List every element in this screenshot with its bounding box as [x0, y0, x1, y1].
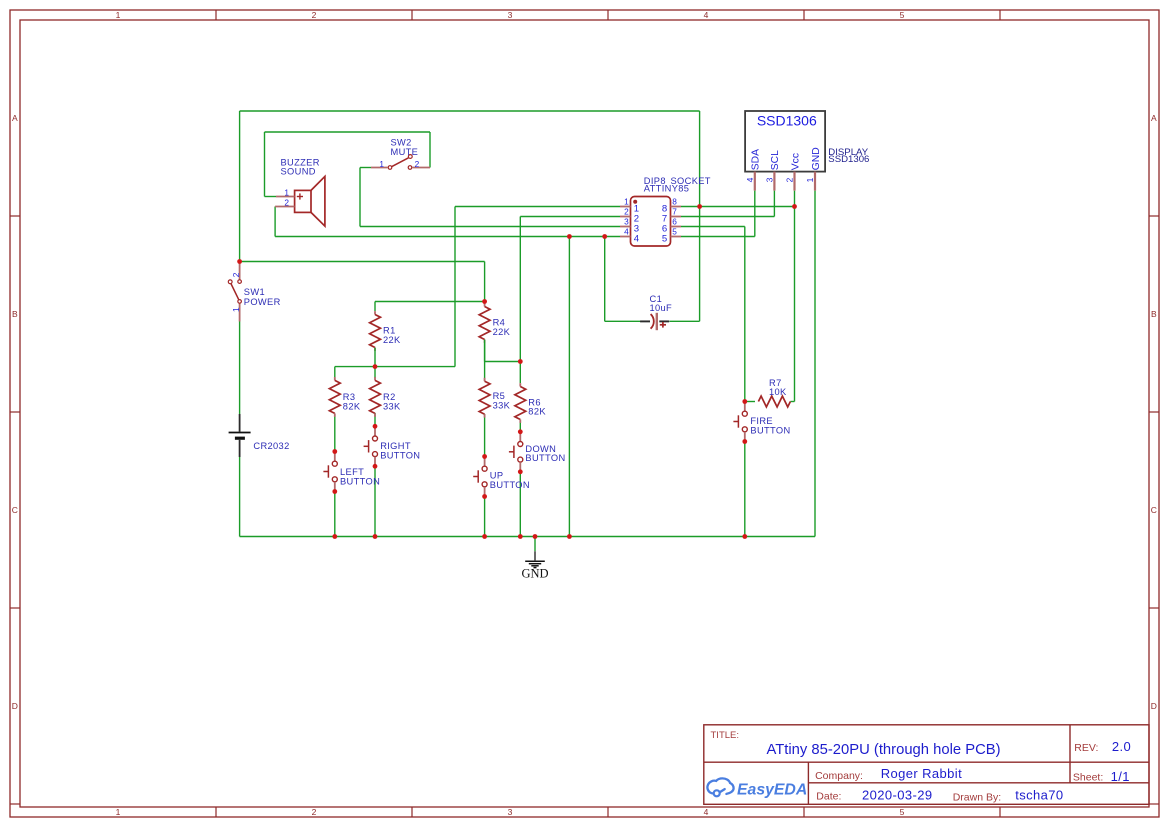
svg-text:B: B [12, 309, 18, 319]
fire button body [744, 402, 746, 412]
junction R1-R2-R3 node [373, 364, 378, 369]
svg-text:3: 3 [508, 10, 513, 20]
R1 zigzag [374, 311, 376, 314]
svg-text:SSD1306: SSD1306 [828, 154, 869, 165]
svg-text:6: 6 [672, 217, 677, 227]
junction display Vcc [792, 204, 797, 209]
wire: buzzer pin2 down to GND row [274, 207, 276, 237]
svg-text:Roger Rabbit: Roger Rabbit [881, 766, 962, 781]
wire: R2 bottom to RIGHT button [374, 413, 376, 426]
svg-text:2: 2 [312, 10, 317, 20]
left button body [334, 452, 336, 462]
wire: DIP pin8 wire to display Vcc [681, 206, 795, 208]
down button body [519, 432, 521, 442]
svg-text:BUTTON: BUTTON [525, 453, 565, 463]
junction rail GND [533, 534, 538, 539]
svg-text:4: 4 [624, 227, 629, 237]
svg-text:2: 2 [415, 159, 420, 169]
svg-text:EasyEDA: EasyEDA [737, 781, 807, 798]
svg-text:10K: 10K [769, 387, 787, 397]
svg-text:3: 3 [508, 807, 513, 817]
R2 zigzag [374, 377, 376, 380]
svg-text:5: 5 [900, 10, 905, 20]
wire: RIGHT button to rail [374, 466, 376, 536]
junction R4 top node [482, 299, 487, 304]
svg-text:2.0: 2.0 [1112, 739, 1131, 754]
R3 zigzag [334, 377, 336, 380]
DIP8 pin 2 [620, 216, 631, 218]
svg-text:1: 1 [284, 187, 289, 197]
svg-text:tscha70: tscha70 [1015, 787, 1063, 802]
svg-text:3: 3 [765, 177, 775, 182]
svg-text:4: 4 [634, 234, 640, 245]
SSD1306 pin 4 SDA [754, 172, 756, 191]
right button body [374, 426, 376, 436]
wire: LEFT button to rail [334, 491, 336, 536]
svg-text:1: 1 [116, 10, 121, 20]
wire: R3 bottom to LEFT button [334, 414, 336, 452]
svg-text:1: 1 [624, 197, 629, 207]
svg-text:SDA: SDA [751, 149, 762, 170]
wire: DIP pin4 (GND) wire from buzzer [275, 236, 620, 238]
svg-text:TITLE:: TITLE: [711, 730, 740, 741]
wire: UP button to rail [484, 495, 486, 536]
wire: SW2 pin1 down to pin3 row [360, 167, 371, 169]
junction rail FIRE [742, 534, 747, 539]
svg-text:SW1: SW1 [244, 287, 265, 297]
svg-text:REV:: REV: [1074, 742, 1098, 754]
wire: left vertical x=240 to SW1 [239, 111, 241, 262]
svg-text:Company:: Company: [815, 770, 863, 782]
wire: DIP pin1 wire [455, 206, 620, 208]
EasyEDA logo [707, 778, 733, 794]
svg-text:2: 2 [284, 198, 289, 208]
junction GND wire left [567, 234, 572, 239]
svg-text:SCL: SCL [770, 150, 781, 170]
wire: battery column [239, 322, 241, 415]
buzzer BUZZER SOUND [295, 190, 311, 212]
junction rail DOWN [518, 534, 523, 539]
svg-text:D: D [1151, 701, 1157, 711]
svg-text:D: D [12, 701, 18, 711]
svg-text:BUTTON: BUTTON [340, 477, 380, 487]
junction SW1/Vcc node [237, 259, 242, 264]
wire: display GND vertical to bottom rail [814, 191, 816, 537]
junction GND wire C1 [602, 234, 607, 239]
up button body [484, 457, 486, 467]
battery CR2032 [239, 414, 241, 432]
wire: R6 bottom to DOWN button [519, 420, 521, 432]
junction rail LEFT [332, 534, 337, 539]
wire: DIP pin2 wire [520, 216, 620, 218]
svg-text:1: 1 [805, 177, 815, 182]
svg-text:33K: 33K [383, 402, 401, 412]
svg-text:B: B [1151, 309, 1157, 319]
svg-text:GND: GND [521, 567, 548, 581]
wire: R5 bottom to UP button [484, 414, 486, 457]
svg-text:2: 2 [785, 177, 795, 182]
resistor R2 33K [374, 367, 376, 378]
svg-text:ATtiny 85-20PU (through hole P: ATtiny 85-20PU (through hole PCB) [766, 742, 1000, 758]
junction rail UP [482, 534, 487, 539]
SSD1306 pin 2 Vcc [793, 172, 795, 191]
R6 zigzag [519, 383, 521, 386]
DIP8 pin 1 [620, 206, 631, 208]
wire: DIP pin3 wire from SW2 [360, 226, 620, 228]
svg-text:4: 4 [745, 177, 755, 182]
wire: R4-R5 column joins [484, 340, 486, 382]
DIP8 pin 3 [620, 226, 631, 228]
wire: R7 left stub [745, 401, 755, 403]
svg-text:POWER: POWER [244, 297, 281, 307]
svg-text:33K: 33K [493, 401, 511, 411]
svg-text:2020-03-29: 2020-03-29 [862, 787, 933, 802]
wire: node row R1-bottom / R3-top / to pin1 riser [335, 366, 455, 368]
svg-text:C: C [12, 505, 18, 515]
svg-text:82K: 82K [528, 407, 546, 417]
wire: GND symbol stub [534, 537, 536, 552]
svg-text:5: 5 [900, 807, 905, 817]
svg-text:8: 8 [672, 197, 677, 207]
SSD1306 pin 1 GND [814, 172, 816, 191]
svg-text:1: 1 [231, 307, 241, 312]
svg-text:1: 1 [116, 807, 121, 817]
wire: R7 right to Vcc riser [790, 401, 794, 403]
svg-text:Sheet:: Sheet: [1073, 772, 1103, 784]
wire: DIP pin5 wire to SDA [681, 236, 755, 238]
R4 zigzag [484, 303, 486, 306]
svg-text:2: 2 [312, 807, 317, 817]
svg-text:1: 1 [379, 159, 384, 169]
svg-text:2: 2 [624, 207, 629, 217]
junction pin8 Vcc [697, 204, 702, 209]
svg-text:1/1: 1/1 [1111, 769, 1130, 784]
DIP8 pin 8 [671, 206, 682, 208]
wire: C1 left riser x=605 [604, 237, 606, 322]
wire: DOWN button to rail [519, 471, 521, 536]
svg-text:A: A [12, 113, 18, 123]
svg-text:82K: 82K [343, 402, 361, 412]
switch SW2 MUTE [371, 167, 388, 169]
wire: SW1 node to R4 column [240, 261, 485, 263]
svg-text:Vcc: Vcc [790, 153, 801, 170]
junction rail RIGHT [373, 534, 378, 539]
R7 zigzag [758, 396, 790, 407]
svg-text:4: 4 [704, 10, 709, 20]
DIP8 pin 7 [671, 216, 682, 218]
svg-text:5: 5 [662, 234, 667, 245]
wire: FIRE button to rail [744, 441, 746, 537]
svg-text:MUTE: MUTE [391, 147, 419, 157]
wire: display Vcc vertical down to R7 [794, 191, 796, 402]
wire: buzzer loop top [265, 131, 431, 133]
buzzer pin 2 [275, 206, 295, 208]
svg-text:A: A [1151, 113, 1157, 123]
capacitor C1 10uF [640, 320, 650, 322]
wire: Vcc vertical x=700 down to C1 [699, 111, 701, 321]
svg-text:BUTTON: BUTTON [750, 426, 790, 436]
title block frame [704, 725, 1149, 805]
DIP8 pin 5 [671, 236, 682, 238]
svg-text:C: C [1151, 505, 1157, 515]
DIP8 pin 6 [671, 226, 682, 228]
ground GND [534, 551, 536, 560]
wire: DIP pin6 wire down to fire node [681, 226, 745, 228]
svg-text:BUTTON: BUTTON [380, 450, 420, 460]
junction rail riser [567, 534, 572, 539]
wire: R1 top to R4 top [375, 301, 485, 303]
wire: DIP pin7 wire to SCL [681, 216, 774, 218]
wire: pin1 riser x=455 [454, 207, 456, 367]
svg-text:GND: GND [811, 147, 822, 170]
svg-text:2: 2 [231, 272, 241, 277]
svg-text:4: 4 [704, 807, 709, 817]
svg-text:Drawn By:: Drawn By: [953, 791, 1001, 803]
svg-text:SOUND: SOUND [281, 167, 316, 177]
svg-text:BUTTON: BUTTON [490, 480, 530, 490]
buzzer pin 1 [276, 196, 295, 198]
display module U? SSD1306 body [745, 111, 825, 172]
wire: pin2 riser x=520 down to R6 [519, 217, 521, 384]
svg-text:SSD1306: SSD1306 [757, 113, 817, 129]
svg-text:Date:: Date: [816, 791, 841, 803]
svg-text:CR2032: CR2032 [253, 441, 289, 451]
R5 zigzag [484, 378, 486, 381]
junction R4-R6 node [518, 359, 523, 364]
svg-text:10uF: 10uF [650, 303, 673, 313]
svg-text:22K: 22K [383, 335, 401, 345]
svg-text:22K: 22K [493, 327, 511, 337]
wire: top Vcc rail [240, 110, 700, 112]
wire: buzzer pin1 short [265, 196, 277, 198]
SSD1306 pin 3 SCL [773, 172, 775, 191]
wire: bottom GND rail [240, 536, 815, 538]
svg-text:ATTINY85: ATTINY85 [644, 184, 690, 194]
DIP8 pin 4 [620, 236, 631, 238]
svg-text:3: 3 [624, 217, 629, 227]
switch SW1 POWER [239, 262, 241, 280]
svg-text:5: 5 [672, 227, 677, 237]
svg-text:7: 7 [672, 207, 677, 217]
wire: C1 left/right horizontal [605, 320, 641, 322]
DIP8 socket ATTINY85 body [631, 197, 671, 247]
wire: GND riser x=569 [568, 237, 570, 537]
